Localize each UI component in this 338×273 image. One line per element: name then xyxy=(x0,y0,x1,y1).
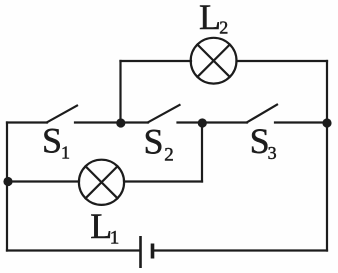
svg-text:1: 1 xyxy=(110,228,120,249)
svg-text:2: 2 xyxy=(219,17,228,37)
svg-text:3: 3 xyxy=(268,143,277,163)
svg-text:L: L xyxy=(199,0,221,37)
svg-text:2: 2 xyxy=(164,145,174,166)
svg-text:S: S xyxy=(144,122,164,162)
svg-text:1: 1 xyxy=(61,143,70,163)
svg-text:S: S xyxy=(42,120,62,160)
